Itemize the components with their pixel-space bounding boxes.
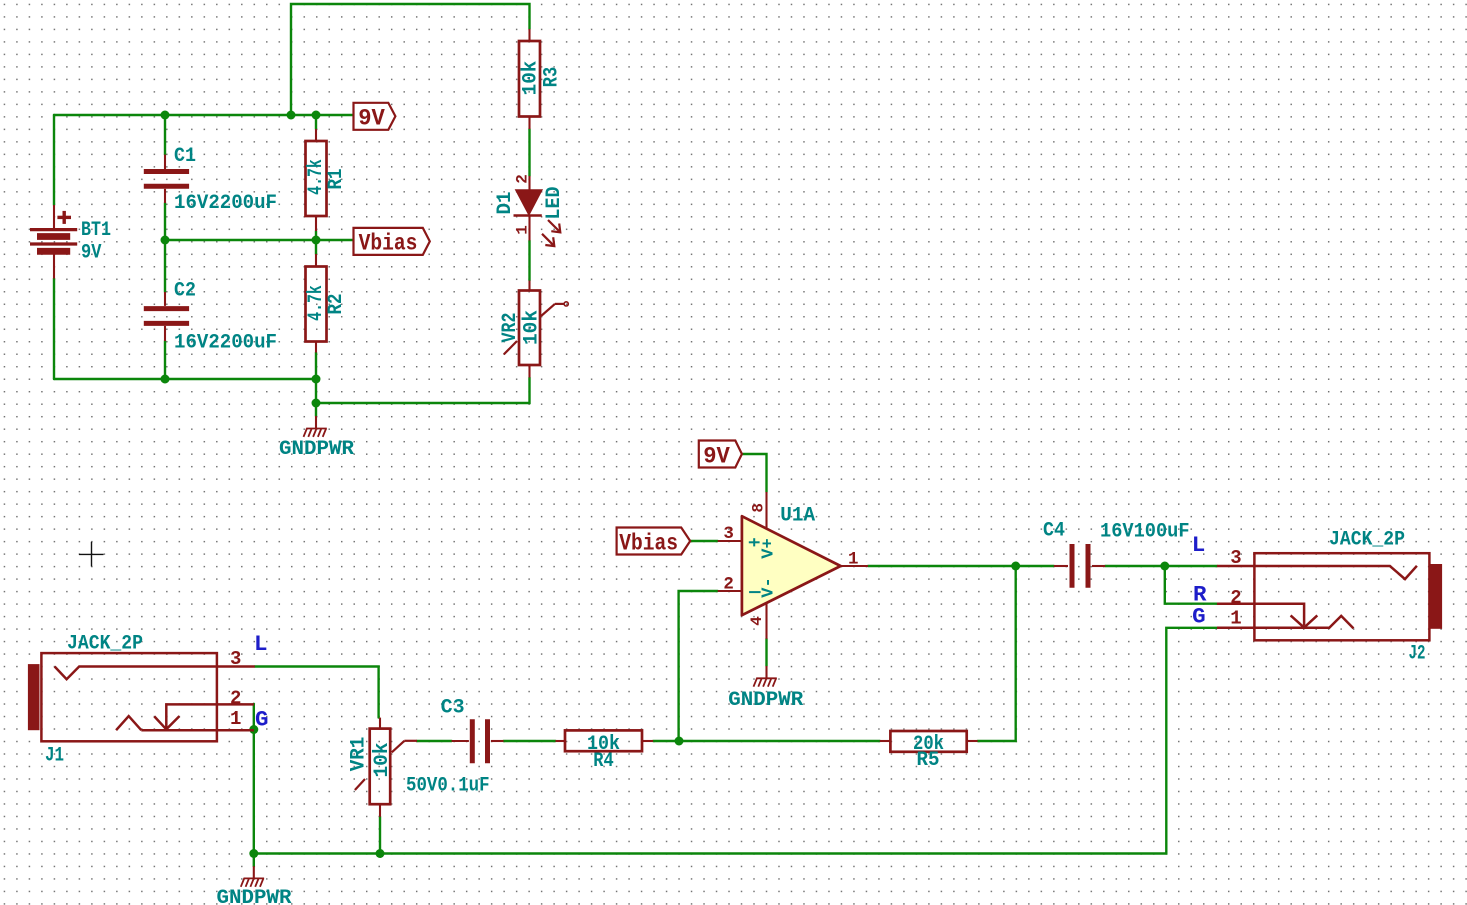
svg-text:Vbias: Vbias bbox=[619, 530, 678, 556]
svg-text:3: 3 bbox=[230, 648, 241, 670]
svg-text:Vbias: Vbias bbox=[359, 231, 418, 257]
svg-text:VR1: VR1 bbox=[348, 737, 371, 772]
svg-text:3: 3 bbox=[1230, 547, 1241, 569]
svg-text:3: 3 bbox=[723, 524, 734, 544]
svg-text:V-: V- bbox=[760, 577, 779, 597]
svg-text:G: G bbox=[255, 707, 269, 733]
svg-text:BT1: BT1 bbox=[81, 219, 111, 242]
svg-text:C3: C3 bbox=[441, 697, 465, 720]
svg-text:9V: 9V bbox=[358, 106, 385, 132]
svg-text:16V2200uF: 16V2200uF bbox=[174, 192, 277, 215]
svg-text:1: 1 bbox=[230, 708, 241, 730]
svg-text:V+: V+ bbox=[760, 538, 779, 558]
svg-text:9V: 9V bbox=[703, 443, 730, 469]
svg-text:2: 2 bbox=[1230, 587, 1241, 609]
svg-text:R1: R1 bbox=[325, 169, 348, 190]
svg-text:2: 2 bbox=[513, 174, 531, 184]
svg-text:10k: 10k bbox=[520, 61, 543, 96]
svg-text:10k: 10k bbox=[371, 743, 394, 778]
svg-text:R2: R2 bbox=[325, 294, 348, 315]
svg-text:D1: D1 bbox=[494, 192, 517, 215]
svg-text:1: 1 bbox=[1230, 608, 1241, 630]
svg-text:GNDPWR: GNDPWR bbox=[279, 438, 354, 461]
svg-text:JACK_2P: JACK_2P bbox=[1329, 529, 1405, 552]
svg-text:16V2200uF: 16V2200uF bbox=[174, 332, 277, 355]
svg-text:50V0.1uF: 50V0.1uF bbox=[406, 775, 490, 798]
svg-text:8: 8 bbox=[750, 503, 768, 513]
svg-text:2: 2 bbox=[230, 688, 241, 710]
svg-text:1: 1 bbox=[848, 550, 859, 570]
svg-text:10k: 10k bbox=[521, 310, 544, 345]
svg-text:G: G bbox=[1192, 603, 1206, 629]
svg-text:JACK_2P: JACK_2P bbox=[67, 633, 143, 656]
svg-text:R4: R4 bbox=[593, 750, 614, 773]
svg-text:GNDPWR: GNDPWR bbox=[217, 887, 292, 905]
svg-text:J2: J2 bbox=[1409, 643, 1426, 666]
svg-text:C1: C1 bbox=[174, 145, 196, 168]
svg-text:16V100uF: 16V100uF bbox=[1100, 521, 1190, 544]
svg-text:VR2: VR2 bbox=[499, 313, 522, 343]
svg-text:2: 2 bbox=[723, 574, 734, 594]
svg-text:R5: R5 bbox=[917, 749, 940, 772]
svg-text:L: L bbox=[1192, 532, 1206, 558]
svg-text:9V: 9V bbox=[81, 242, 101, 265]
svg-text:4: 4 bbox=[748, 616, 766, 626]
svg-text:J1: J1 bbox=[45, 745, 64, 768]
svg-text:C2: C2 bbox=[174, 280, 196, 303]
svg-text:LED: LED bbox=[543, 187, 566, 220]
svg-text:U1A: U1A bbox=[780, 505, 815, 528]
svg-text:R3: R3 bbox=[540, 67, 563, 87]
svg-text:C4: C4 bbox=[1043, 520, 1065, 543]
svg-text:L: L bbox=[254, 631, 268, 657]
svg-text:1: 1 bbox=[513, 225, 531, 235]
svg-text:GNDPWR: GNDPWR bbox=[728, 689, 803, 712]
